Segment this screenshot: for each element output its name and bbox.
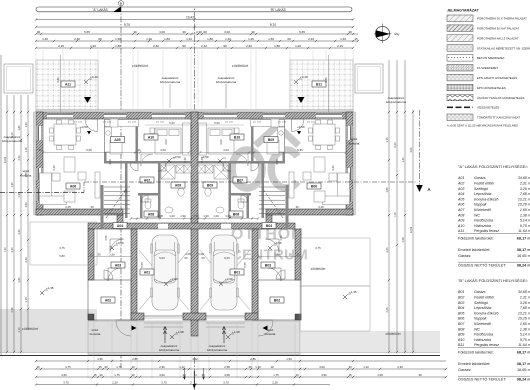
svg-text:5,65: 5,65 bbox=[299, 30, 305, 34]
svg-text:A06: A06 bbox=[457, 203, 464, 207]
svg-text:1,40: 1,40 bbox=[42, 37, 48, 41]
svg-text:1,80: 1,80 bbox=[164, 37, 170, 41]
svg-text:30: 30 bbox=[348, 30, 352, 34]
svg-text:Földszinti lakóterület:: Földszinti lakóterület: bbox=[458, 237, 494, 241]
svg-text:POROTHERM-AKU Z FALAZAT: POROTHERM-AKU Z FALAZAT bbox=[477, 36, 519, 40]
svg-text:A10: A10 bbox=[148, 135, 154, 139]
svg-text:1,40: 1,40 bbox=[340, 37, 346, 41]
svg-text:3,75: 3,75 bbox=[223, 380, 229, 384]
svg-text:POROTHERM 30 N+F FALAZAT: POROTHERM 30 N+F FALAZAT bbox=[477, 27, 520, 31]
svg-text:34,68 m²: 34,68 m² bbox=[518, 290, 530, 294]
svg-text:4,40: 4,40 bbox=[10, 247, 14, 253]
svg-text:12,93: 12,93 bbox=[409, 226, 413, 233]
legend row: FA SZERKEZET bbox=[447, 65, 473, 72]
svg-text:30: 30 bbox=[137, 148, 141, 152]
svg-text:B07: B07 bbox=[237, 178, 243, 182]
svg-text:2,40: 2,40 bbox=[308, 37, 314, 41]
svg-text:EPS-GRAFIT HŐSZIGETELÉS: EPS-GRAFIT HŐSZIGETELÉS bbox=[477, 75, 517, 80]
svg-text:B02: B02 bbox=[458, 296, 464, 300]
svg-text:3,60: 3,60 bbox=[17, 277, 21, 283]
svg-text:10: 10 bbox=[131, 365, 135, 369]
porch B02 bbox=[258, 280, 301, 320]
svg-text:B06: B06 bbox=[458, 317, 464, 321]
svg-text:1,38 m²: 1,38 m² bbox=[520, 327, 530, 331]
svg-text:19,42: 19,42 bbox=[186, 15, 194, 19]
svg-text:Közlekedő: Közlekedő bbox=[474, 322, 492, 326]
svg-text:13,21 m²: 13,21 m² bbox=[518, 311, 530, 315]
svg-text:1,45: 1,45 bbox=[248, 37, 254, 41]
svg-text:50: 50 bbox=[184, 256, 188, 260]
svg-text:5,14 m²: 5,14 m² bbox=[520, 219, 530, 223]
wall: living bottom A bbox=[36, 209, 123, 215]
watermark OC logo bbox=[232, 126, 298, 189]
svg-text:7,10: 7,10 bbox=[393, 212, 397, 218]
svg-text:3,08: 3,08 bbox=[224, 373, 230, 377]
svg-text:1,40: 1,40 bbox=[225, 37, 231, 41]
svg-text:2,90: 2,90 bbox=[159, 365, 165, 369]
legend row: POROTHERM 30 X-THERM FALAZAT bbox=[447, 15, 473, 22]
interior partitions bbox=[104, 119, 107, 163]
svg-text:1,10: 1,10 bbox=[255, 365, 261, 369]
svg-text:1,65 m²: 1,65 m² bbox=[520, 322, 530, 326]
room label B09 bbox=[203, 182, 217, 188]
svg-text:5,00: 5,00 bbox=[159, 256, 165, 260]
svg-text:A10: A10 bbox=[457, 224, 464, 228]
svg-text:ÖSSZES NETTÓ TERÜLET:: ÖSSZES NETTÓ TERÜLET: bbox=[458, 263, 506, 268]
wall: garage left A bbox=[131, 229, 137, 320]
svg-text:pm 1,50: pm 1,50 bbox=[156, 122, 165, 124]
terrace B11 pergola bbox=[290, 60, 353, 112]
svg-text:FA SZERKEZET: FA SZERKEZET bbox=[477, 66, 498, 70]
svg-text:Pergolás terasz: Pergolás terasz bbox=[474, 343, 499, 347]
svg-text:2,20: 2,20 bbox=[112, 380, 118, 384]
svg-text:5,65: 5,65 bbox=[297, 148, 303, 152]
svg-text:pm 1,50: pm 1,50 bbox=[74, 122, 83, 124]
svg-text:zöldfelület: zöldfelület bbox=[132, 64, 148, 68]
legend row: ÁSVÁNYI SZÁLAS HŐSZIGETELÉS bbox=[447, 94, 473, 101]
section line A-A bbox=[0, 192, 84, 194]
svg-text:2,31 m²: 2,31 m² bbox=[519, 296, 530, 300]
svg-text:1,65 m²: 1,65 m² bbox=[520, 208, 530, 212]
svg-text:9,75 m²: 9,75 m² bbox=[520, 338, 530, 342]
section line D bbox=[120, 6, 122, 368]
svg-text:+1,98: +1,98 bbox=[232, 330, 240, 334]
svg-text:10: 10 bbox=[295, 373, 299, 377]
svg-text:9,70: 9,70 bbox=[270, 23, 276, 27]
svg-text:30: 30 bbox=[248, 365, 252, 369]
svg-text:3,60: 3,60 bbox=[409, 147, 413, 153]
svg-text:11,64 m²: 11,64 m² bbox=[518, 343, 530, 347]
bottom dim chains bbox=[36, 360, 446, 362]
svg-text:3,50: 3,50 bbox=[321, 373, 327, 377]
svg-text:pm 1,50: pm 1,50 bbox=[103, 122, 112, 124]
room label B08 bbox=[229, 211, 243, 217]
svg-text:30: 30 bbox=[37, 30, 41, 34]
svg-text:30: 30 bbox=[182, 373, 186, 377]
svg-text:3,80: 3,80 bbox=[324, 77, 328, 83]
svg-text:Garázs:: Garázs: bbox=[458, 254, 471, 258]
svg-text:Lépcsőház: Lépcsőház bbox=[474, 192, 492, 196]
room label B06 bbox=[307, 183, 321, 189]
room label B01 bbox=[230, 269, 244, 275]
svg-text:2,26: 2,26 bbox=[272, 380, 278, 384]
svg-text:Lépcsőház: Lépcsőház bbox=[474, 306, 492, 310]
room label B02 bbox=[270, 297, 284, 303]
svg-text:2,40: 2,40 bbox=[74, 37, 80, 41]
svg-text:B01: B01 bbox=[234, 270, 240, 274]
svg-text:5,00: 5,00 bbox=[169, 121, 175, 125]
svg-text:lefolyócsatorna: lefolyócsatorna bbox=[216, 80, 237, 84]
svg-text:ÖSSZES NETTÓ TERÜLET:: ÖSSZES NETTÓ TERÜLET: bbox=[458, 377, 506, 382]
svg-text:Hálószoba: Hálószoba bbox=[474, 224, 491, 228]
svg-text:A03: A03 bbox=[115, 263, 121, 267]
svg-text:×: × bbox=[193, 8, 195, 12]
svg-text:B05: B05 bbox=[458, 311, 464, 315]
svg-text:16,65 m²: 16,65 m² bbox=[517, 368, 530, 372]
svg-text:3,62: 3,62 bbox=[192, 357, 198, 361]
svg-text:A05: A05 bbox=[457, 197, 464, 201]
svg-text:1,80: 1,80 bbox=[115, 44, 121, 48]
svg-text:+1,35: +1,35 bbox=[349, 290, 357, 294]
svg-text:B02: B02 bbox=[274, 298, 280, 302]
svg-text:3,00: 3,00 bbox=[160, 148, 166, 152]
spot levels bbox=[84, 80, 88, 84]
svg-text:11,64 m²: 11,64 m² bbox=[518, 229, 530, 233]
svg-text:pm 1,50: pm 1,50 bbox=[307, 122, 316, 124]
svg-text:5,14 m²: 5,14 m² bbox=[520, 333, 530, 337]
svg-text:15: 15 bbox=[348, 373, 352, 377]
room label B10 bbox=[230, 134, 244, 140]
svg-text:90: 90 bbox=[182, 44, 186, 48]
szelfogo arcs B bbox=[266, 239, 280, 253]
svg-text:A04: A04 bbox=[117, 224, 123, 228]
svg-text:burkolat: burkolat bbox=[349, 142, 360, 146]
furniture unit B (mirror) bbox=[198, 119, 350, 215]
top dimension chains bbox=[36, 19, 353, 21]
svg-text:Emeleti lakóterület:: Emeleti lakóterület: bbox=[458, 248, 490, 252]
svg-text:"A" LAKÁS FÖLDSZINTI HELYISÉGE: "A" LAKÁS FÖLDSZINTI HELYISÉGEI: bbox=[458, 164, 528, 169]
svg-text:2,30: 2,30 bbox=[17, 229, 21, 235]
svg-text:98,24 m²: 98,24 m² bbox=[517, 378, 530, 382]
svg-text:1,75: 1,75 bbox=[114, 373, 120, 377]
svg-text:2,12: 2,12 bbox=[201, 44, 207, 48]
svg-text:"A" LAKÁS: "A" LAKÁS bbox=[92, 8, 108, 12]
markers bbox=[87, 131, 91, 135]
right dim chains bbox=[388, 60, 390, 352]
room label A03 bbox=[111, 262, 125, 268]
svg-text:B01: B01 bbox=[458, 290, 464, 294]
svg-text:Pergolás terasz: Pergolás terasz bbox=[474, 229, 499, 233]
svg-text:+0,50: +0,50 bbox=[297, 125, 305, 129]
svg-text:B03: B03 bbox=[458, 301, 464, 305]
svg-text:2,30: 2,30 bbox=[196, 30, 202, 34]
svg-text:lefolyócsatorna: lefolyócsatorna bbox=[2, 139, 23, 143]
svg-text:+0,50: +0,50 bbox=[80, 125, 88, 129]
svg-text:A11: A11 bbox=[65, 82, 71, 86]
room label A06 bbox=[66, 183, 80, 189]
svg-text:2,60: 2,60 bbox=[246, 44, 252, 48]
svg-text:30: 30 bbox=[90, 205, 94, 209]
svg-text:STATIKAILAG MÉRETEZETT VB. SZE: STATIKAILAG MÉRETEZETT VB. SZERKEZET bbox=[477, 45, 530, 50]
legend row: POROTHERM-AKU Z FALAZAT bbox=[447, 35, 473, 42]
porch door arc A bbox=[116, 321, 131, 336]
svg-text:60: 60 bbox=[287, 37, 291, 41]
section marker D bbox=[113, 7, 121, 13]
svg-text:"B" LAKÁS FÖLDSZINTI HELYISÉGE: "B" LAKÁS FÖLDSZINTI HELYISÉGEI: bbox=[458, 278, 528, 283]
svg-text:68,17 m²: 68,17 m² bbox=[517, 237, 530, 241]
svg-text:+0,59: +0,59 bbox=[116, 241, 124, 245]
svg-text:1,08: 1,08 bbox=[377, 373, 383, 377]
svg-text:15: 15 bbox=[354, 37, 358, 41]
legend row: POROTHERM 30 N+F FALAZAT bbox=[447, 25, 473, 32]
svg-text:7,10: 7,10 bbox=[3, 247, 7, 253]
wall: party bbox=[191, 112, 198, 336]
room label B11 bbox=[312, 81, 326, 87]
svg-text:B10: B10 bbox=[234, 135, 240, 139]
svg-text:Emeleti lakóterület:: Emeleti lakóterület: bbox=[458, 362, 490, 366]
room label A05 bbox=[111, 137, 125, 143]
svg-text:Konyha-Étkező: Konyha-Étkező bbox=[474, 310, 499, 315]
svg-text:68,17 m²: 68,17 m² bbox=[517, 351, 530, 355]
svg-text:1,50: 1,50 bbox=[279, 235, 283, 241]
svg-text:3,75: 3,75 bbox=[63, 380, 69, 384]
svg-text:15: 15 bbox=[98, 365, 102, 369]
svg-text:3,02: 3,02 bbox=[219, 139, 223, 145]
svg-text:A09: A09 bbox=[175, 183, 181, 187]
svg-text:2,15: 2,15 bbox=[337, 44, 343, 48]
wall: right exterior bbox=[346, 112, 353, 215]
svg-text:3,00: 3,00 bbox=[159, 373, 165, 377]
svg-text:Konyha-Étkező: Konyha-Étkező bbox=[474, 196, 499, 201]
wall: lower block left bbox=[88, 229, 94, 280]
svg-text:B03: B03 bbox=[265, 263, 271, 267]
svg-text:3,00: 3,00 bbox=[319, 365, 325, 369]
svg-text:A11: A11 bbox=[457, 229, 464, 233]
svg-text:3,80: 3,80 bbox=[56, 77, 60, 83]
svg-text:4,18: 4,18 bbox=[275, 159, 279, 165]
driveway band bbox=[88, 321, 300, 355]
svg-text:1,45: 1,45 bbox=[24, 122, 28, 128]
svg-text:4,18: 4,18 bbox=[108, 159, 112, 165]
svg-text:2,58: 2,58 bbox=[224, 365, 230, 369]
svg-text:A01: A01 bbox=[457, 176, 464, 180]
svg-text:5,55: 5,55 bbox=[140, 262, 144, 268]
shower corner B bbox=[236, 154, 248, 166]
svg-text:2,25: 2,25 bbox=[385, 247, 389, 253]
svg-text:JELMAGYARÁZAT: JELMAGYARÁZAT bbox=[447, 8, 479, 13]
svg-text:1,50: 1,50 bbox=[97, 357, 103, 361]
svg-text:9,70: 9,70 bbox=[124, 23, 130, 27]
green area bottom-left bbox=[0, 309, 97, 352]
svg-text:B08: B08 bbox=[233, 212, 239, 216]
green area bottom-right bbox=[300, 331, 440, 352]
stair A04 bbox=[104, 187, 130, 218]
svg-text:1,80: 1,80 bbox=[274, 44, 280, 48]
wall: left exterior bbox=[36, 112, 43, 215]
svg-text:Garázs: Garázs bbox=[474, 290, 486, 294]
svg-text:1,00: 1,00 bbox=[169, 214, 175, 218]
svg-text:B04: B04 bbox=[458, 306, 464, 310]
svg-text:lefolyócsatorna: lefolyócsatorna bbox=[159, 348, 180, 352]
svg-text:Közlekedő: Közlekedő bbox=[474, 208, 492, 212]
svg-text:30: 30 bbox=[36, 365, 40, 369]
svg-text:98,24 m²: 98,24 m² bbox=[517, 264, 530, 268]
svg-text:A03: A03 bbox=[457, 187, 464, 191]
svg-text:1,50: 1,50 bbox=[109, 253, 115, 257]
svg-text:90: 90 bbox=[223, 44, 227, 48]
svg-text:2,26: 2,26 bbox=[200, 157, 204, 163]
svg-text:1,80: 1,80 bbox=[17, 125, 21, 131]
room label A08 bbox=[144, 211, 158, 217]
furniture unit A bbox=[40, 119, 192, 215]
svg-text:1,15: 1,15 bbox=[24, 147, 28, 153]
legend row: BETON SZERKEZET bbox=[447, 55, 473, 62]
svg-text:60: 60 bbox=[98, 37, 102, 41]
svg-text:3,45: 3,45 bbox=[65, 205, 71, 209]
svg-text:1,60: 1,60 bbox=[24, 202, 28, 208]
svg-text:10,26 m²: 10,26 m² bbox=[518, 317, 530, 321]
svg-text:1,10: 1,10 bbox=[17, 327, 21, 333]
svg-text:30: 30 bbox=[418, 373, 422, 377]
svg-text:10: 10 bbox=[131, 373, 135, 377]
stair B04 bbox=[259, 187, 285, 218]
svg-text:3,26 m²: 3,26 m² bbox=[520, 187, 530, 191]
svg-text:zöldfelület: zöldfelület bbox=[22, 327, 38, 331]
svg-text:1,22: 1,22 bbox=[186, 37, 192, 41]
svg-text:B05: B05 bbox=[268, 138, 274, 142]
svg-text:30: 30 bbox=[133, 30, 137, 34]
svg-text:5,00: 5,00 bbox=[214, 121, 220, 125]
site boundary left bbox=[0, 55, 2, 355]
svg-text:3,75: 3,75 bbox=[59, 246, 65, 250]
svg-text:1,38 m²: 1,38 m² bbox=[520, 213, 530, 217]
utility pad right bbox=[355, 64, 383, 93]
wall: garage front A bbox=[131, 313, 144, 320]
svg-text:2,40: 2,40 bbox=[24, 257, 28, 263]
svg-text:BETON SZERKEZET: BETON SZERKEZET bbox=[477, 56, 505, 60]
bottom arrows bbox=[184, 368, 186, 379]
svg-text:3,15: 3,15 bbox=[10, 132, 14, 138]
room label B05 bbox=[264, 137, 278, 143]
svg-text:+0,50: +0,50 bbox=[173, 155, 181, 159]
svg-text:30: 30 bbox=[295, 205, 299, 209]
svg-text:B04: B04 bbox=[266, 224, 272, 228]
legend row: EPS HŐSZIGETELÉS bbox=[447, 84, 473, 91]
svg-text:38,17 m²: 38,17 m² bbox=[517, 362, 530, 366]
svg-text:2,30: 2,30 bbox=[17, 155, 21, 161]
svg-text:1,50: 1,50 bbox=[268, 37, 274, 41]
room label B07 bbox=[233, 177, 247, 183]
svg-text:1,40: 1,40 bbox=[146, 37, 152, 41]
wall: lower block right bbox=[295, 229, 301, 280]
terrace A11 pergola bbox=[36, 60, 98, 112]
patio below living A bbox=[30, 222, 97, 265]
svg-text:POROTHERM 30 X-THERM FALAZAT: POROTHERM 30 X-THERM FALAZAT bbox=[477, 17, 527, 21]
section line A right bbox=[419, 110, 421, 185]
svg-text:30: 30 bbox=[99, 373, 103, 377]
svg-text:5,80: 5,80 bbox=[59, 254, 65, 258]
svg-text:7,68 m²: 7,68 m² bbox=[520, 306, 530, 310]
svg-text:3,15: 3,15 bbox=[385, 137, 389, 143]
svg-text:burkolat: burkolat bbox=[90, 332, 101, 336]
svg-text:15: 15 bbox=[296, 253, 300, 257]
svg-text:"B" LAKÁS: "B" LAKÁS bbox=[270, 8, 286, 12]
svg-text:WC: WC bbox=[474, 213, 480, 217]
svg-text:2,85: 2,85 bbox=[250, 357, 256, 361]
svg-text:lefolyócsatorna: lefolyócsatorna bbox=[207, 348, 228, 352]
svg-text:3,26 m²: 3,26 m² bbox=[520, 301, 530, 305]
svg-text:B11: B11 bbox=[316, 82, 322, 86]
svg-text:pm 1,50: pm 1,50 bbox=[128, 122, 137, 124]
svg-text:38,17 m²: 38,17 m² bbox=[517, 248, 530, 252]
svg-text:A02: A02 bbox=[457, 182, 464, 186]
svg-text:ÁSVÁNYI SZÁLAS HŐSZIGETELÉS: ÁSVÁNYI SZÁLAS HŐSZIGETELÉS bbox=[477, 95, 524, 100]
svg-text:Szélfogó: Szélfogó bbox=[474, 187, 488, 191]
svg-text:Földszinti lakóterület:: Földszinti lakóterület: bbox=[458, 351, 494, 355]
svg-text:Fürdőszoba: Fürdőszoba bbox=[474, 333, 493, 337]
room label A09 bbox=[171, 182, 185, 188]
ramp edges bbox=[144, 322, 183, 324]
room label B03 bbox=[261, 262, 275, 268]
svg-text:1,50: 1,50 bbox=[104, 235, 108, 241]
svg-text:1,80: 1,80 bbox=[207, 37, 213, 41]
svg-text:A09: A09 bbox=[457, 219, 464, 223]
svg-text:1,10: 1,10 bbox=[363, 365, 369, 369]
svg-text:B06: B06 bbox=[311, 184, 317, 188]
svg-text:TÖMÖRÍTETT KAVICSÁGYAZAT: TÖMÖRÍTETT KAVICSÁGYAZAT bbox=[477, 116, 520, 120]
wall: garage right B bbox=[252, 229, 258, 320]
svg-text:2,15: 2,15 bbox=[58, 44, 64, 48]
legend row: EPS-GRAFIT HŐSZIGETELÉS bbox=[447, 74, 473, 81]
svg-text:30: 30 bbox=[104, 365, 108, 369]
svg-text:3,50: 3,50 bbox=[61, 373, 67, 377]
garage B floor bbox=[200, 250, 250, 310]
svg-text:30: 30 bbox=[251, 30, 255, 34]
svg-text:zöldfelület: zöldfelület bbox=[232, 64, 248, 68]
left dim chains bbox=[6, 95, 8, 352]
svg-text:zöldfelület: zöldfelület bbox=[385, 332, 400, 336]
svg-text:50: 50 bbox=[201, 256, 205, 260]
svg-text:pm 1,50: pm 1,50 bbox=[253, 122, 262, 124]
svg-text:1,12: 1,12 bbox=[179, 365, 185, 369]
svg-text:1,45: 1,45 bbox=[10, 182, 14, 188]
svg-text:B08: B08 bbox=[458, 327, 464, 331]
porch door arc B bbox=[258, 321, 273, 336]
svg-text:3,00: 3,00 bbox=[159, 30, 165, 34]
svg-text:pm 1,50: pm 1,50 bbox=[278, 122, 287, 124]
top label bar bbox=[36, 7, 352, 12]
svg-text:30: 30 bbox=[201, 373, 205, 377]
svg-text:Nappali: Nappali bbox=[474, 317, 486, 321]
svg-text:9,75 m²: 9,75 m² bbox=[520, 224, 530, 228]
svg-text:A ±0,00 SZINT A 111,50 mBf MAG: A ±0,00 SZINT A 111,50 mBf MAGASSÁGNAK F… bbox=[447, 123, 518, 127]
svg-text:2,31 m²: 2,31 m² bbox=[519, 182, 530, 186]
svg-text:Garázs: Garázs bbox=[474, 176, 486, 180]
svg-text:4,20: 4,20 bbox=[52, 165, 56, 171]
room label A01 bbox=[140, 269, 154, 275]
svg-text:WC: WC bbox=[474, 327, 480, 331]
svg-text:10: 10 bbox=[270, 365, 274, 369]
svg-text:1,08: 1,08 bbox=[185, 252, 191, 256]
svg-text:1,15: 1,15 bbox=[24, 297, 28, 303]
svg-text:1,50: 1,50 bbox=[286, 357, 292, 361]
svg-text:Hálószoba: Hálószoba bbox=[474, 338, 491, 342]
svg-text:3,08: 3,08 bbox=[157, 214, 163, 218]
svg-text:1,20: 1,20 bbox=[90, 44, 96, 48]
wall: top exterior bbox=[36, 112, 353, 119]
svg-text:A08: A08 bbox=[148, 212, 154, 216]
svg-text:5,55: 5,55 bbox=[243, 262, 247, 268]
